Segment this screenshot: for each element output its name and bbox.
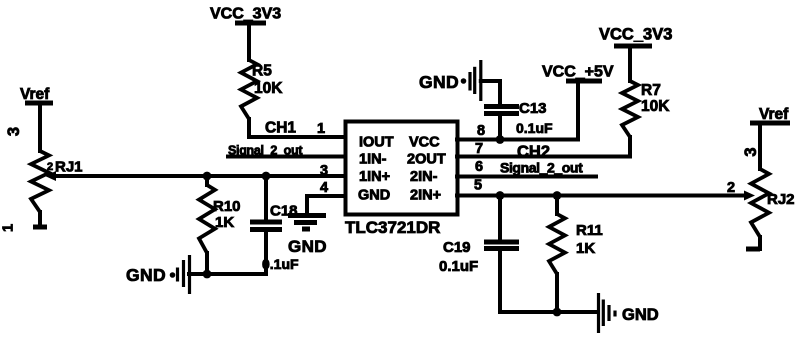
svg-text:VCC: VCC bbox=[409, 135, 440, 151]
svg-text:VCC_3V3: VCC_3V3 bbox=[210, 6, 281, 23]
svg-text:2OUT: 2OUT bbox=[407, 152, 446, 168]
svg-text:RJ2: RJ2 bbox=[767, 191, 795, 208]
svg-text:3: 3 bbox=[5, 127, 23, 136]
svg-text:VCC_3V3: VCC_3V3 bbox=[599, 26, 672, 44]
svg-text:0.1uF: 0.1uF bbox=[516, 120, 553, 136]
svg-text:IOUT: IOUT bbox=[359, 135, 394, 151]
svg-text:2: 2 bbox=[727, 180, 735, 196]
svg-text:RJ1: RJ1 bbox=[55, 159, 83, 176]
svg-text:0.1uF: 0.1uF bbox=[439, 258, 478, 275]
svg-text:TLC3721DR: TLC3721DR bbox=[345, 218, 440, 237]
svg-text:10K: 10K bbox=[254, 80, 283, 97]
svg-text:1: 1 bbox=[317, 121, 325, 137]
svg-text:GND: GND bbox=[288, 237, 327, 256]
svg-text:10K: 10K bbox=[641, 98, 670, 115]
svg-text:4: 4 bbox=[320, 180, 328, 196]
svg-text:1K: 1K bbox=[576, 240, 595, 257]
svg-text:6: 6 bbox=[475, 159, 483, 175]
svg-text:5: 5 bbox=[474, 178, 482, 194]
svg-text:0.1uF: 0.1uF bbox=[262, 256, 299, 272]
svg-text:C13: C13 bbox=[519, 100, 547, 117]
svg-text:GND: GND bbox=[622, 306, 659, 324]
svg-text:CH2: CH2 bbox=[517, 143, 550, 161]
svg-text:CH1: CH1 bbox=[265, 120, 296, 137]
svg-text:R10: R10 bbox=[213, 198, 241, 215]
svg-text:R11: R11 bbox=[576, 222, 603, 239]
svg-text:R5: R5 bbox=[252, 63, 272, 80]
svg-text:1IN-: 1IN- bbox=[359, 152, 387, 168]
svg-text:3: 3 bbox=[742, 147, 760, 156]
svg-text:Vref: Vref bbox=[759, 106, 789, 123]
svg-text:2IN+: 2IN+ bbox=[410, 188, 441, 204]
svg-text:C19: C19 bbox=[443, 239, 471, 256]
svg-text:R7: R7 bbox=[641, 82, 661, 99]
svg-text:VCC_+5V: VCC_+5V bbox=[542, 64, 614, 81]
svg-text:8: 8 bbox=[477, 123, 485, 139]
svg-text:2IN-: 2IN- bbox=[410, 169, 438, 185]
svg-text:1IN+: 1IN+ bbox=[359, 169, 390, 185]
svg-text:3: 3 bbox=[320, 163, 328, 179]
svg-text:1K: 1K bbox=[215, 214, 234, 231]
svg-text:Vref: Vref bbox=[20, 86, 50, 103]
svg-text:GND: GND bbox=[419, 72, 459, 92]
svg-text:GND: GND bbox=[358, 188, 390, 204]
svg-text:1: 1 bbox=[1, 224, 17, 232]
svg-text:GND: GND bbox=[126, 265, 166, 285]
svg-text:2: 2 bbox=[47, 161, 53, 173]
svg-text:Signal_2_out: Signal_2_out bbox=[500, 160, 583, 176]
